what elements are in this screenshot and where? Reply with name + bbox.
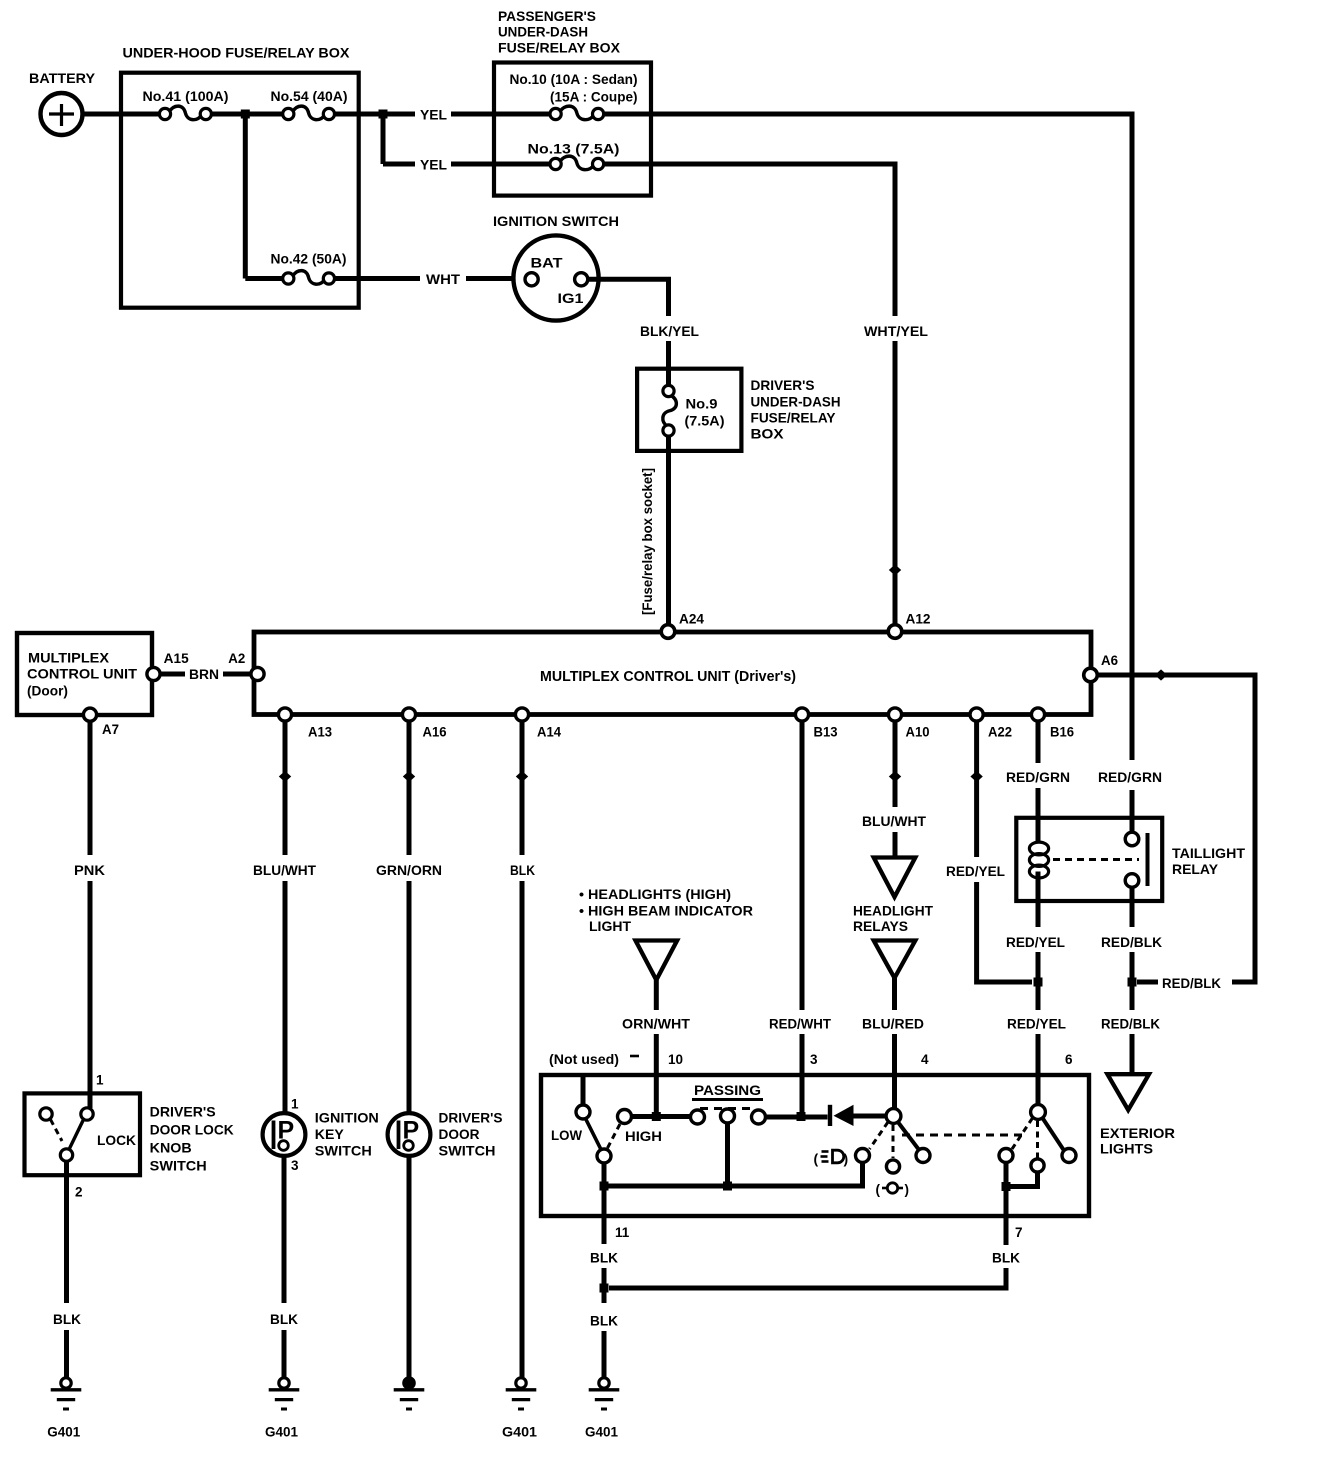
svg-text:ORN/WHT: ORN/WHT [622,1017,691,1032]
ground G401 (door lock) [61,1378,71,1388]
headlight switch alt position 2 (dashed) [892,1125,895,1158]
svg-text:GRN/ORN: GRN/ORN [376,863,442,878]
lighting switch alt 2 (dashed) [1036,1121,1039,1158]
wire branch down to second YEL row [381,114,386,164]
multiplex control unit (driver's) box [254,632,1091,715]
wire terminal 7 down [1004,1216,1009,1245]
svg-text:BATTERY: BATTERY [29,70,96,86]
knob switch common [60,1149,72,1161]
ground G401 (ignition key switch) [279,1378,289,1388]
svg-text:B13: B13 [814,725,838,740]
terminal A7 [83,708,96,721]
wire diode to headlight switch pivot [854,1114,887,1119]
svg-text:4: 4 [921,1052,929,1067]
svg-text:No.9: No.9 [686,397,718,412]
svg-text:RED/GRN: RED/GRN [1006,770,1070,785]
node: passing-to-bus junction [723,1182,732,1191]
node: BLK junction [600,1284,609,1293]
svg-text:6: 6 [1065,1052,1073,1067]
terminal B16 [1031,708,1044,721]
wire A13 to ignition key switch (BLU/WHT) [283,722,288,856]
svg-text:G401: G401 [47,1425,80,1440]
headlight relay symbol (lower) [874,941,916,979]
terminal A10 [888,708,901,721]
dimmer alternate position (dashed) [608,1123,621,1148]
svg-text:3: 3 [291,1158,299,1173]
taillight relay contact [1053,858,1139,861]
wire 7 joins wire 11 [609,1268,1006,1288]
svg-text:(7.5A): (7.5A) [685,414,725,429]
svg-text:LOW: LOW [551,1128,582,1143]
svg-text:BLK: BLK [992,1251,1020,1266]
case ground (door switch) [404,1378,414,1388]
svg-text:SWITCH: SWITCH [150,1158,207,1174]
svg-text:A7: A7 [102,722,119,737]
svg-text:IG1: IG1 [558,291,585,306]
svg-text:UNDER-HOOD FUSE/RELAY BOX: UNDER-HOOD FUSE/RELAY BOX [123,45,351,61]
headlight relay symbol (upper) [874,858,916,898]
knob switch open contact [40,1108,52,1120]
node: RED/BLK junction [1128,978,1137,987]
svg-text:RED/GRN: RED/GRN [1098,770,1162,785]
svg-text:KNOB: KNOB [150,1140,192,1156]
node: RED/YEL junction [1034,978,1043,987]
lighting switch blade [1043,1118,1065,1151]
headlight switch pivot (terminal 4) [886,1109,901,1124]
svg-text:DOOR LOCK: DOOR LOCK [150,1122,234,1138]
wire A10 to headlight relays (BLU/WHT) [893,722,898,808]
wire knob switch to ground (BLK) [64,1161,69,1303]
svg-text:A14: A14 [537,725,561,740]
svg-text:(: ( [814,1151,819,1167]
stray dash mark [630,1055,639,1058]
svg-text:BAT: BAT [531,256,564,271]
svg-text:A24: A24 [679,612,704,627]
svg-text:BLU/WHT: BLU/WHT [253,863,317,878]
terminal B13 [795,708,808,721]
svg-text:7: 7 [1015,1225,1023,1240]
wire IG1 to driver fuse box (BLK/YEL) [588,279,669,316]
wire No.13 output to A12 (WHT/YEL) [604,164,895,316]
wire fuse42 to WHT label [335,276,421,281]
taillight contact [999,1149,1013,1163]
svg-text:BLU/RED: BLU/RED [862,1017,924,1032]
svg-text:HIGH: HIGH [625,1129,662,1144]
svg-text:DRIVER'S: DRIVER'S [439,1111,503,1126]
connector arrow on BLU/WHT wire [279,771,291,782]
passing terminal left [691,1110,705,1124]
fuse No.9 (7.5A) [663,395,677,427]
svg-text:No.42 (50A): No.42 (50A) [271,252,347,267]
svg-text:G401: G401 [265,1425,298,1440]
connector arrow on GRN/ORN wire [403,771,415,782]
svg-text:SWITCH: SWITCH [439,1144,496,1159]
svg-text:A22: A22 [988,725,1012,740]
taillight relay box [1016,818,1162,901]
svg-text:RED/YEL: RED/YEL [1006,935,1065,950]
svg-text:BLK: BLK [270,1312,298,1327]
svg-text:G401: G401 [585,1425,618,1440]
connector arrow on A10 wire [889,771,901,782]
HIGH terminal [618,1110,632,1124]
diode D1 [828,1105,832,1126]
svg-text:IGNITION: IGNITION [315,1111,379,1126]
svg-text:TAILLIGHT: TAILLIGHT [1172,845,1245,861]
svg-text:(15A : Coupe): (15A : Coupe) [550,90,638,105]
svg-text:RED/BLK: RED/BLK [1101,1017,1160,1032]
svg-text:• HIGH BEAM INDICATOR: • HIGH BEAM INDICATOR [579,904,753,919]
wire YEL to fuse No.13 [451,162,550,167]
LOW terminal [576,1105,590,1119]
svg-text:EXTERIOR: EXTERIOR [1100,1125,1175,1141]
svg-text:LIGHT: LIGHT [589,919,632,934]
wire fuse54 to YEL label [335,112,416,117]
svg-text:): ) [844,1151,849,1167]
lighting switch pivot (terminal 6) [1031,1105,1046,1120]
svg-text:BLK/YEL: BLK/YEL [640,324,699,339]
svg-text:RED/BLK: RED/BLK [1101,935,1162,950]
node: junction YEL branch [379,110,388,119]
terminal A2 [251,667,264,680]
ignition key switch [263,1113,306,1156]
node: terminal 10 junction [652,1112,661,1121]
ground G401 (A14 BLK wire) [516,1378,526,1388]
svg-text:BLK: BLK [53,1312,81,1327]
svg-text:RELAY: RELAY [1172,861,1219,877]
svg-text:(Not used): (Not used) [549,1052,619,1067]
svg-text:YEL: YEL [420,158,447,173]
battery B1 [41,93,83,135]
svg-text:(: ( [876,1182,881,1197]
wire dimmer common to lamp contact bus [604,1163,863,1187]
lighting switch alt (dashed) [1012,1118,1033,1149]
svg-text:PNK: PNK [74,863,105,878]
svg-text:A2: A2 [228,651,245,666]
svg-text:MULTIPLEX CONTROL UNIT (Driver: MULTIPLEX CONTROL UNIT (Driver's) [540,669,796,685]
svg-text:KEY: KEY [315,1127,344,1142]
taillight relay coil [1029,842,1048,855]
driver's door switch [388,1113,431,1156]
svg-text:CONTROL UNIT: CONTROL UNIT [27,666,137,682]
dimmer common terminal [597,1149,611,1163]
wire down to fuse No.42 [243,114,248,279]
wire B16 to taillight relay coil (RED/GRN) [1036,722,1041,764]
svg-text:A16: A16 [423,725,447,740]
wire relay switch to exterior lights (RED/BLK) [1130,888,1135,928]
svg-text:UNDER-DASH: UNDER-DASH [751,394,841,410]
svg-text:A6: A6 [1101,653,1118,668]
node: junction at fuse 41/54 split [241,110,250,119]
terminal A24 [661,625,675,639]
svg-text:No.13 (7.5A): No.13 (7.5A) [528,142,620,157]
wire A14 to ground (BLK) [520,722,525,856]
svg-text:A12: A12 [906,612,931,627]
svg-text:YEL: YEL [420,108,447,123]
connector arrow on A6 wire [1155,669,1167,680]
svg-text:SWITCH: SWITCH [315,1144,372,1159]
svg-text:HEADLIGHT: HEADLIGHT [853,903,933,919]
svg-text:FUSE/RELAY: FUSE/RELAY [751,410,837,426]
svg-text:A10: A10 [906,725,930,740]
svg-text:1: 1 [291,1097,299,1112]
connector arrow on A22 wire [970,771,982,782]
terminal A14 [515,708,528,721]
svg-text:A13: A13 [308,725,332,740]
wire A7 to door lock knob switch (PNK) [88,722,93,856]
parking contact [886,1160,899,1173]
mid contact [1031,1159,1044,1172]
svg-text:WHT/YEL: WHT/YEL [864,324,928,339]
combination light switch box [541,1075,1089,1216]
svg-text:UNDER-DASH: UNDER-DASH [498,24,588,40]
svg-text:B16: B16 [1050,725,1074,740]
svg-text:RELAYS: RELAYS [853,918,908,934]
wire A15-A2 (BRN) [160,672,185,677]
passing terminal mid [721,1109,735,1123]
svg-text:MULTIPLEX: MULTIPLEX [28,650,110,666]
svg-text:PASSING: PASSING [694,1083,761,1098]
svg-text:11: 11 [615,1225,630,1240]
svg-text:2: 2 [75,1185,83,1200]
svg-text:LIGHTS: LIGHTS [1100,1141,1153,1157]
knob switch blade [69,1120,84,1150]
wire A22 (RED/YEL) [974,722,979,858]
terminal A16 [402,708,415,721]
ground G401 (combination switch) [599,1378,609,1388]
svg-text:1: 1 [96,1073,104,1088]
svg-text:BLK: BLK [590,1314,618,1329]
wire [211,112,282,117]
svg-text:• HEADLIGHTS (HIGH): • HEADLIGHTS (HIGH) [579,887,731,902]
terminal A22 [970,708,983,721]
svg-text:WHT: WHT [426,272,461,287]
node: terminal 11 junction [600,1182,609,1191]
passing bridge (dashed) [752,1110,766,1124]
exterior lights symbol [1107,1074,1149,1110]
terminal A13 [278,708,291,721]
svg-text:No.54 (40A): No.54 (40A) [271,89,348,104]
svg-text:No.10 (10A : Sedan): No.10 (10A : Sedan) [510,72,638,87]
svg-text:10: 10 [668,1052,683,1067]
wire A16 to door switch (GRN/ORN) [407,722,412,856]
headlights/high-beam indicator symbol [636,941,678,981]
svg-text:BOX: BOX [751,426,785,442]
svg-text:IGNITION SWITCH: IGNITION SWITCH [493,213,619,229]
svg-text:No.41 (100A): No.41 (100A) [143,89,229,104]
svg-text:BLK: BLK [590,1251,618,1266]
svg-text:RED/BLK: RED/BLK [1162,976,1221,991]
node: terminal 3 junction [797,1112,806,1121]
wire battery to under-hood box [83,112,160,117]
svg-text:DRIVER'S: DRIVER'S [150,1104,216,1120]
svg-text:FUSE/RELAY BOX: FUSE/RELAY BOX [498,40,621,56]
wire relay to combination switch terminal 4 (BLU/RED) [892,978,897,1010]
node: terminal 7 junction [1002,1182,1011,1191]
wire YEL to passenger box fuse No.10 [451,112,550,117]
svg-text:PASSENGER'S: PASSENGER'S [498,8,596,24]
svg-text:BRN: BRN [189,667,219,682]
svg-text:A15: A15 [164,651,189,666]
wire fuse No.9 to A24 [666,436,671,625]
terminal A15 [147,667,160,680]
dimmer switch: not-used stub [581,1075,586,1106]
driver's under-dash fuse/relay box [637,369,741,451]
high contact [916,1149,930,1163]
wire to combination switch terminal 10 (ORN/WHT) [654,980,659,1010]
terminal A12 [888,625,902,639]
svg-text:3: 3 [810,1052,818,1067]
driver's door lock knob switch box [25,1093,141,1175]
terminal A6 [1084,668,1098,682]
svg-text:RED/WHT: RED/WHT [769,1017,832,1032]
multiplex control unit (door) box [17,633,152,715]
svg-text:[Fuse/relay box socket]: [Fuse/relay box socket] [640,468,655,615]
under-hood fuse/relay box [121,73,359,308]
wire terminal 11 down [602,1186,607,1244]
svg-text:DRIVER'S: DRIVER'S [751,377,815,393]
svg-text:(Door): (Door) [27,683,68,699]
wire passing mid terminal to bus [725,1123,730,1186]
head contact [1062,1149,1076,1163]
svg-text:LOCK: LOCK [97,1133,136,1148]
knob switch terminal 1 [81,1108,93,1120]
wire relay coil to combination switch terminal 6 (RED/YEL) [1036,901,1041,927]
svg-text:RED/YEL: RED/YEL [946,864,1005,879]
wire ignition key switch to ground (BLK) [282,1156,287,1303]
wire door switch to case ground [407,1156,412,1379]
connector arrow on BLK wire [516,771,528,782]
wire A6 to RED/BLK junction [1098,675,1256,982]
dimmer switch blade [586,1119,602,1150]
wire No.10 output: long YEL wire to taillight relay (becomes RED/GRN) [604,114,1132,760]
svg-text:BLK: BLK [510,863,535,878]
wire contacts to terminal 7 [1004,1163,1009,1217]
svg-text:RED/YEL: RED/YEL [1007,1017,1066,1032]
wire HIGH bus to passing switch [632,1114,690,1119]
svg-text:): ) [905,1182,910,1197]
knob switch alt position (dashed) [51,1120,63,1142]
headlight switch alt position (dashed) [870,1122,889,1149]
svg-text:BLU/WHT: BLU/WHT [862,814,927,829]
wire B13 to combination switch terminal 3 (RED/WHT) [800,722,805,1011]
wire WHT to ignition switch BAT [466,276,525,281]
connector arrow on WHT/YEL wire [889,564,901,575]
wire passing to diode [766,1115,828,1120]
headlight switch blade [898,1122,920,1151]
mechanical link (dashed) [902,1134,1028,1137]
headlamp contact [856,1149,870,1163]
svg-text:G401: G401 [502,1425,538,1440]
svg-text:DOOR: DOOR [439,1127,480,1142]
